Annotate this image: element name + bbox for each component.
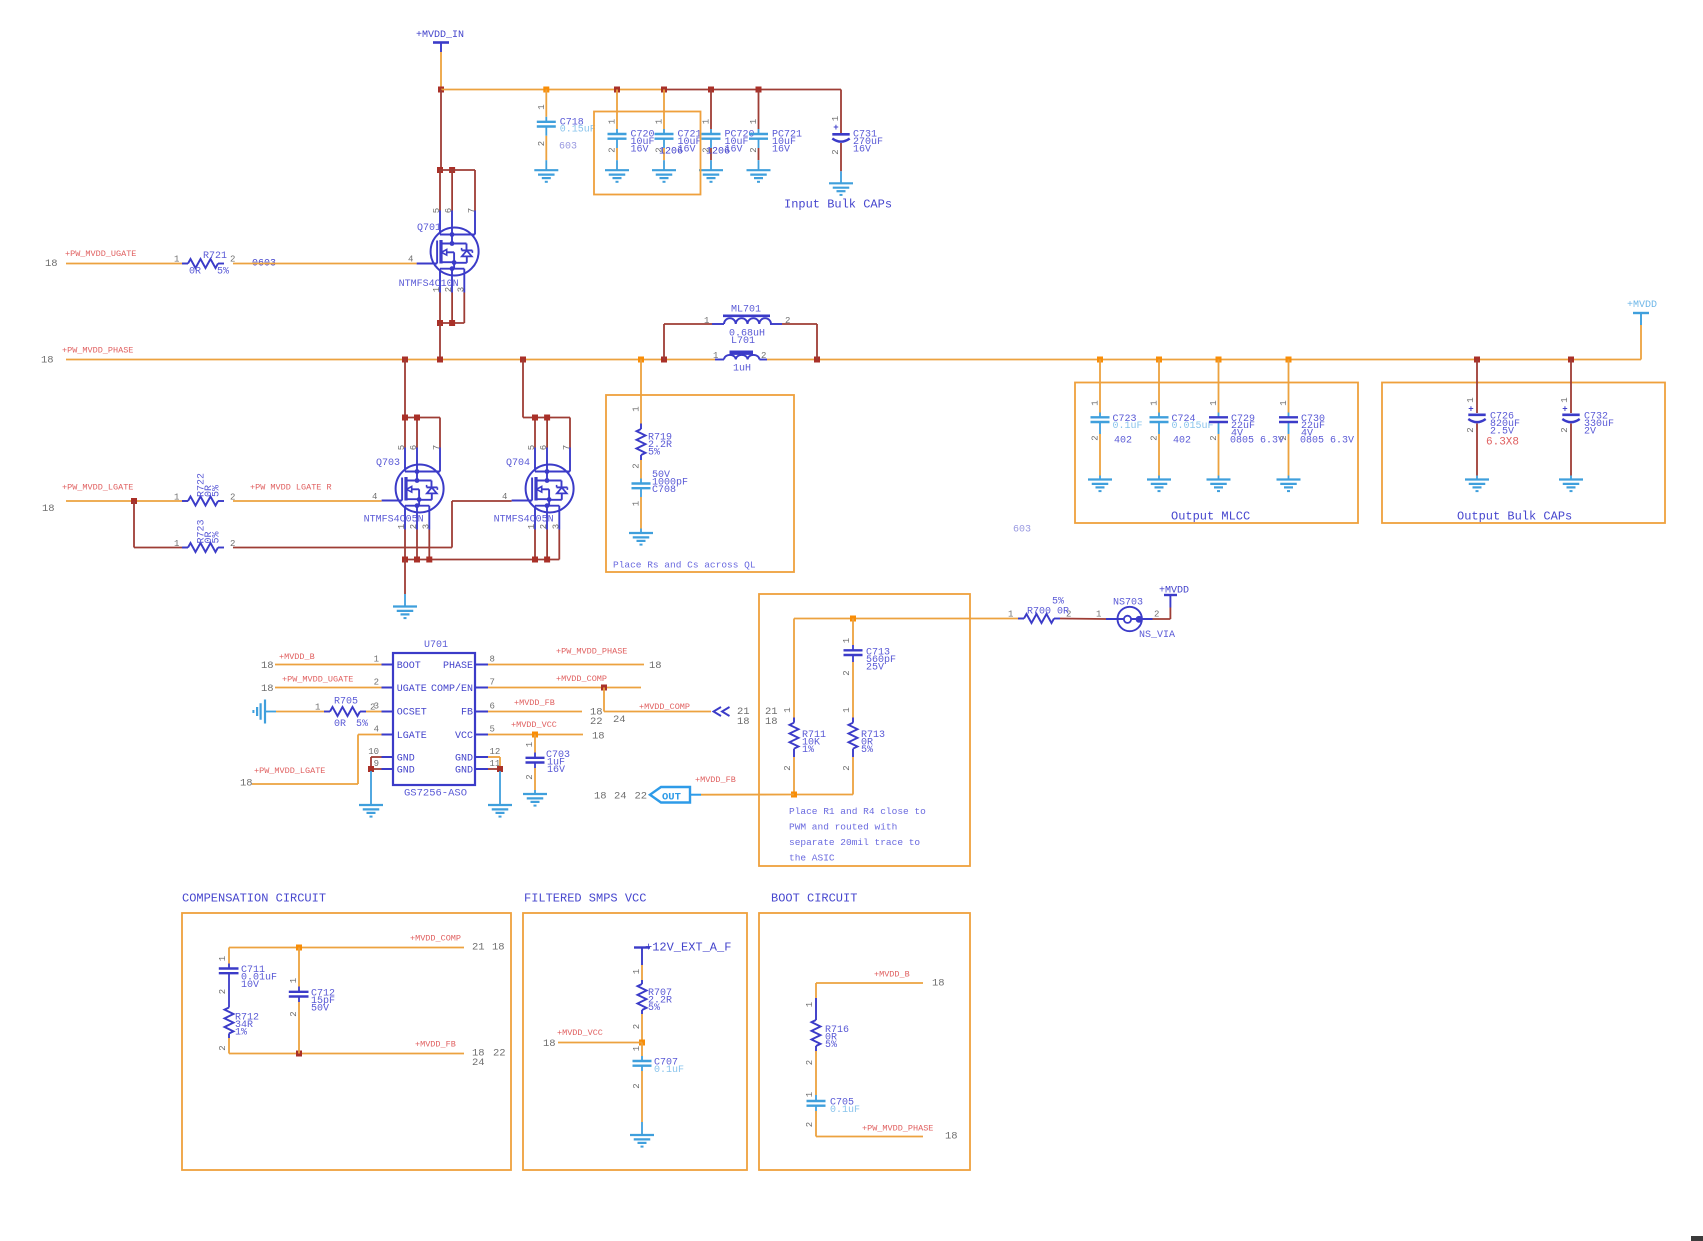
junction phase Q704	[520, 357, 526, 363]
svg-text:1: 1	[713, 351, 718, 361]
svg-text:2: 2	[1466, 427, 1476, 432]
svg-text:0.015uF: 0.015uF	[1172, 421, 1214, 432]
svg-text:1: 1	[805, 1002, 815, 1007]
svg-text:9: 9	[374, 759, 379, 769]
svg-text:2: 2	[1209, 435, 1219, 440]
svg-text:1: 1	[174, 493, 179, 503]
svg-text:0805 6.3V: 0805 6.3V	[1300, 436, 1354, 447]
ic U701 GS7256-ASO	[368, 640, 500, 800]
wire C708 to ground	[640, 497, 642, 529]
svg-text:1: 1	[1466, 397, 1476, 402]
wire comp bottom	[229, 1038, 464, 1054]
junction phase snubber	[638, 357, 644, 363]
junction Q704 pin5	[532, 415, 538, 421]
wire source ground stub	[404, 594, 406, 607]
svg-text:2: 2	[632, 1024, 642, 1029]
svg-text:0.1uF: 0.1uF	[654, 1065, 684, 1076]
svg-text:22: 22	[493, 1048, 506, 1060]
svg-text:18: 18	[649, 660, 662, 672]
svg-text:+MVDD_FB: +MVDD_FB	[695, 775, 736, 785]
svg-text:1: 1	[525, 742, 535, 747]
svg-text:2: 2	[218, 1045, 228, 1050]
capacitor C732 polarized	[1560, 397, 1614, 437]
svg-text:2: 2	[805, 1060, 815, 1065]
svg-text:2: 2	[805, 1122, 815, 1127]
svg-text:1: 1	[289, 978, 299, 983]
svg-text:+MVDD_COMP: +MVDD_COMP	[639, 702, 690, 712]
wire R707 to junction	[641, 1014, 643, 1043]
wire input bus orange	[441, 89, 665, 91]
wire C721 leads	[663, 90, 665, 171]
svg-text:+PW_MVDD_LGATE: +PW_MVDD_LGATE	[62, 483, 133, 493]
svg-text:18: 18	[45, 258, 58, 270]
svg-text:2: 2	[218, 989, 228, 994]
wire phase rail left	[66, 359, 715, 361]
svg-text:NTMFS4C05N: NTMFS4C05N	[364, 515, 424, 526]
resistor R700	[1008, 597, 1071, 624]
svg-text:1: 1	[842, 707, 852, 712]
wire Q704 drain	[523, 360, 570, 448]
capacitor C703	[525, 742, 570, 780]
junction PC721	[756, 87, 762, 93]
svg-text:6: 6	[409, 445, 419, 450]
svg-text:6.3X8: 6.3X8	[1486, 437, 1519, 449]
svg-text:10: 10	[368, 747, 379, 757]
svg-text:2: 2	[537, 141, 547, 146]
capacitor C724	[1150, 400, 1214, 440]
svg-text:0.1uF: 0.1uF	[830, 1105, 860, 1116]
svg-text:1: 1	[805, 1092, 815, 1097]
junction C726	[1474, 357, 1480, 363]
wire PC721 leads	[758, 90, 760, 171]
junction source Q703 pin1	[402, 557, 408, 563]
svg-text:5%: 5%	[217, 267, 229, 278]
svg-text:+PW_MVDD_PHASE: +PW_MVDD_PHASE	[556, 647, 627, 657]
svg-text:5: 5	[397, 445, 407, 450]
svg-text:GND: GND	[455, 766, 473, 777]
wire COMP out	[488, 687, 641, 689]
wire 12V to R707	[641, 965, 643, 980]
resistor R705	[315, 697, 375, 731]
ground C732	[1559, 480, 1583, 492]
svg-text:18: 18	[765, 716, 778, 728]
svg-text:2: 2	[374, 678, 379, 688]
wire lgate left	[66, 500, 188, 502]
svg-text:0.1uF: 0.1uF	[1113, 421, 1143, 432]
svg-text:2: 2	[842, 765, 852, 770]
wire MVDD_VCC out	[558, 1042, 642, 1044]
svg-text:Input Bulk CAPs: Input Bulk CAPs	[784, 198, 892, 212]
svg-text:16V: 16V	[772, 144, 790, 155]
junction MVDD_VCC	[639, 1040, 645, 1046]
ground U701 right	[488, 805, 512, 817]
box input MLCC group	[594, 112, 701, 195]
resistor R723	[174, 519, 235, 552]
ground U701 left	[359, 805, 383, 817]
svg-text:25V: 25V	[866, 662, 884, 673]
junction Q703 pin6	[414, 415, 420, 421]
svg-text:1: 1	[702, 119, 712, 124]
svg-text:PWM and routed with: PWM and routed with	[789, 822, 897, 833]
svg-text:1: 1	[632, 501, 642, 506]
svg-text:4: 4	[408, 255, 413, 265]
svg-text:4: 4	[372, 492, 377, 502]
svg-text:2: 2	[1091, 435, 1101, 440]
wire Q703 drain	[405, 360, 440, 448]
capacitor C731 polarized	[831, 116, 883, 156]
junction C723	[1097, 357, 1103, 363]
svg-text:GS7256-ASO: GS7256-ASO	[404, 788, 467, 800]
wire comp top	[229, 948, 464, 964]
svg-text:2: 2	[761, 351, 766, 361]
junction phase ML701 left	[661, 357, 667, 363]
note place R1 and R4	[789, 806, 926, 864]
svg-text:Place Rs and Cs across QL: Place Rs and Cs across QL	[613, 560, 756, 571]
ground PC721	[747, 170, 771, 182]
svg-text:Place R1 and R4 close to: Place R1 and R4 close to	[789, 806, 926, 817]
label pages OUT	[594, 791, 647, 803]
svg-text:the ASIC: the ASIC	[789, 853, 835, 864]
svg-text:+MVDD_B: +MVDD_B	[279, 652, 315, 662]
box output bulk	[1382, 383, 1665, 524]
wire Q701 bottom pins	[440, 293, 464, 324]
svg-text:Output Bulk CAPs: Output Bulk CAPs	[1457, 510, 1572, 524]
label pages comp top	[472, 942, 505, 954]
svg-text:+MVDD_FB: +MVDD_FB	[514, 698, 555, 708]
svg-text:+MVDD_IN: +MVDD_IN	[416, 30, 464, 41]
svg-text:5%: 5%	[825, 1040, 837, 1051]
svg-text:ML701: ML701	[731, 305, 761, 316]
ground C730	[1277, 480, 1301, 492]
svg-text:OUT: OUT	[662, 792, 681, 804]
svg-text:603: 603	[559, 142, 577, 153]
wire UGATE	[275, 687, 382, 689]
svg-text:5%: 5%	[648, 1003, 660, 1014]
transistor Q704	[494, 445, 574, 530]
wire OCSET ground stub	[265, 711, 276, 713]
resistor R713	[842, 707, 885, 770]
svg-text:COMP/EN: COMP/EN	[431, 683, 473, 695]
junction R711 bottom	[791, 792, 797, 798]
svg-text:BOOT: BOOT	[397, 661, 421, 672]
resistor R711	[783, 707, 826, 770]
capacitor C718	[537, 104, 596, 146]
inductor ML701	[704, 305, 790, 348]
svg-text:7: 7	[467, 208, 477, 213]
svg-text:6: 6	[490, 702, 495, 712]
svg-text:1: 1	[1096, 610, 1101, 620]
svg-text:2V: 2V	[1584, 426, 1596, 437]
svg-text:2: 2	[1150, 435, 1160, 440]
svg-text:16V: 16V	[547, 765, 565, 776]
capacitor C713	[842, 638, 896, 676]
svg-text:VCC: VCC	[455, 731, 473, 742]
resistor R716	[805, 998, 849, 1065]
svg-text:2: 2	[749, 147, 759, 152]
wire C708 ground stub	[640, 529, 642, 534]
ground OCSET	[253, 700, 265, 724]
svg-text:2: 2	[1279, 435, 1289, 440]
wire C730 leads	[1288, 360, 1290, 480]
svg-text:22: 22	[590, 716, 603, 728]
svg-text:22: 22	[635, 791, 648, 803]
svg-text:2: 2	[1560, 427, 1570, 432]
svg-text:+12V_EXT_A_F: +12V_EXT_A_F	[645, 941, 731, 955]
svg-text:NTMFS4C05N: NTMFS4C05N	[494, 515, 554, 526]
svg-text:GND: GND	[397, 754, 415, 765]
svg-text:+PW_MVDD_PHASE: +PW_MVDD_PHASE	[62, 346, 133, 356]
wire C723 leads	[1099, 360, 1101, 480]
svg-text:16V: 16V	[631, 144, 649, 155]
wire C724 leads	[1158, 360, 1160, 480]
svg-text:18: 18	[932, 978, 945, 990]
svg-text:+PW_MVDD_PHASE: +PW_MVDD_PHASE	[862, 1124, 933, 1134]
svg-text:+: +	[833, 123, 838, 133]
svg-text:1: 1	[1150, 400, 1160, 405]
wire C711 to R712	[228, 978, 230, 1008]
svg-text:+: +	[1468, 405, 1473, 415]
wire C703 top	[534, 735, 536, 753]
svg-text:10V: 10V	[241, 980, 259, 991]
wire C720 leads	[616, 90, 618, 171]
capacitor C723	[1091, 400, 1143, 440]
wire junction to C707	[641, 1043, 643, 1057]
svg-text:1: 1	[1091, 400, 1101, 405]
svg-text:1: 1	[315, 703, 320, 713]
junction C724	[1156, 357, 1162, 363]
ground C723	[1088, 480, 1112, 492]
svg-text:GND: GND	[397, 766, 415, 777]
svg-text:4: 4	[374, 725, 379, 735]
wire FB out	[488, 711, 582, 713]
svg-text:1: 1	[1209, 400, 1219, 405]
inductor L701 ferrite bead	[713, 351, 767, 375]
svg-text:1206: 1206	[659, 147, 683, 158]
svg-text:1: 1	[537, 104, 547, 109]
capacitor PC721	[749, 119, 802, 156]
svg-text:COMPENSATION CIRCUIT: COMPENSATION CIRCUIT	[182, 892, 326, 906]
junction phase Q701	[437, 357, 443, 363]
wire phase rail right	[767, 325, 1641, 360]
svg-text:R721: R721	[203, 251, 227, 262]
svg-text:1: 1	[842, 638, 852, 643]
wire GND11 stub	[499, 771, 501, 805]
svg-text:8: 8	[490, 655, 495, 665]
wire VCC out	[488, 734, 583, 736]
junction lgate split	[131, 498, 137, 504]
junction Q701 pin1	[437, 320, 443, 326]
svg-text:7: 7	[562, 445, 572, 450]
wire OCSET left	[276, 711, 330, 713]
junction C720	[614, 87, 620, 93]
wire ML701 branch	[664, 324, 817, 360]
resistor R719	[632, 406, 673, 468]
wire C712 top	[298, 948, 300, 987]
junction Q703 pin5	[402, 415, 408, 421]
ground C707	[630, 1135, 654, 1147]
power +MVDD at via	[1159, 586, 1189, 608]
svg-text:1: 1	[174, 539, 179, 549]
svg-text:1: 1	[1008, 610, 1013, 620]
svg-text:1: 1	[608, 119, 618, 124]
power +MVDD right	[1627, 300, 1657, 325]
svg-text:24: 24	[614, 791, 627, 803]
junction comp bottom	[296, 1051, 302, 1057]
junction GND11	[497, 766, 503, 772]
label pages comp bottom	[472, 1048, 506, 1070]
box place R1 R4	[759, 594, 970, 866]
svg-text:1%: 1%	[235, 1027, 247, 1038]
transistor Q701	[399, 208, 479, 293]
svg-text:21: 21	[472, 942, 485, 954]
svg-text:5%: 5%	[648, 447, 660, 458]
wire Q701 source to phase	[439, 323, 441, 360]
capacitor C712	[289, 978, 335, 1017]
svg-text:1: 1	[1279, 400, 1289, 405]
wire R716 to C705	[815, 1051, 817, 1095]
svg-text:24: 24	[472, 1057, 485, 1069]
svg-text:OCSET: OCSET	[397, 708, 427, 719]
svg-text:2: 2	[632, 463, 642, 468]
svg-text:5%: 5%	[861, 745, 873, 756]
junction source Q704 pin2	[544, 557, 550, 563]
svg-text:2: 2	[831, 149, 841, 154]
junction phase Q703	[402, 357, 408, 363]
wire boot top	[816, 983, 923, 998]
wire input bus maroon	[664, 90, 841, 134]
svg-text:+: +	[1562, 405, 1567, 415]
junction C721	[661, 87, 667, 93]
ground power stage	[393, 607, 417, 619]
svg-text:1: 1	[632, 406, 642, 411]
wire Q701 drain	[440, 90, 442, 171]
junction C729	[1216, 357, 1222, 363]
wire Q701 top pins	[440, 170, 475, 211]
wire NS703 to +MVDD	[1153, 608, 1171, 620]
svg-text:1: 1	[749, 119, 759, 124]
svg-text:+MVDD_VCC: +MVDD_VCC	[557, 1028, 603, 1038]
svg-text:5: 5	[527, 445, 537, 450]
wire COMP down	[604, 688, 711, 712]
svg-text:separate 20mil trace to: separate 20mil trace to	[789, 837, 920, 848]
ground C720	[605, 170, 629, 182]
junction COMP	[601, 685, 607, 691]
capacitor C726 polarized	[1466, 397, 1520, 448]
svg-text:+MVDD_FB: +MVDD_FB	[415, 1040, 456, 1050]
junction C730	[1286, 357, 1292, 363]
wire comp top to R700	[794, 618, 1024, 620]
wire boot bottom	[816, 1111, 923, 1137]
wire R700 to NS703	[1060, 618, 1106, 621]
svg-text:18: 18	[592, 731, 605, 743]
wire ugate left	[66, 263, 188, 265]
svg-text:603: 603	[1013, 525, 1031, 536]
capacitor C721	[655, 119, 702, 158]
wire lgate to Q703	[233, 500, 382, 502]
svg-text:1: 1	[218, 956, 228, 961]
svg-text:18: 18	[261, 683, 274, 695]
wire GND9 stub	[370, 771, 372, 805]
wire C703 ground stub	[534, 790, 536, 794]
power +12V_EXT_A_F	[634, 941, 731, 966]
svg-text:FILTERED SMPS VCC: FILTERED SMPS VCC	[524, 892, 646, 906]
svg-text:24: 24	[613, 714, 626, 726]
wire C707 ground stub	[641, 1122, 643, 1135]
svg-text:2: 2	[608, 147, 618, 152]
ground C703	[523, 794, 547, 806]
svg-text:Q704: Q704	[506, 458, 530, 469]
svg-text:+PW MVDD LGATE R: +PW MVDD LGATE R	[250, 483, 332, 493]
svg-text:PHASE: PHASE	[443, 661, 473, 672]
wire R723 to Q704	[233, 501, 512, 548]
svg-text:16V: 16V	[853, 144, 871, 155]
wire source bus	[405, 530, 559, 560]
box boot circuit	[759, 913, 970, 1170]
svg-text:Output MLCC: Output MLCC	[1171, 510, 1250, 524]
svg-text:1: 1	[831, 116, 841, 121]
svg-text:0R: 0R	[334, 719, 346, 730]
svg-text:+MVDD: +MVDD	[1159, 586, 1189, 597]
box output MLCC	[1075, 383, 1358, 524]
junction VCC C703	[532, 732, 538, 738]
svg-text:50V: 50V	[311, 1003, 329, 1014]
resistor R707	[632, 969, 672, 1029]
svg-text:Q701: Q701	[417, 223, 441, 234]
svg-text:0805 6.3V: 0805 6.3V	[1230, 436, 1284, 447]
svg-text:+MVDD_B: +MVDD_B	[874, 970, 910, 980]
label pages 21 18 inner	[765, 706, 778, 728]
ground C729	[1207, 480, 1231, 492]
svg-text:GND: GND	[455, 754, 473, 765]
svg-text:0R: 0R	[189, 267, 201, 278]
svg-text:0.15uF: 0.15uF	[560, 125, 596, 136]
svg-text:6: 6	[539, 445, 549, 450]
ground C721	[652, 170, 676, 182]
svg-text:2: 2	[1154, 610, 1159, 620]
junction C732	[1568, 357, 1574, 363]
port OUT	[650, 787, 701, 804]
wire C703 bottom	[534, 768, 536, 790]
svg-text:C708: C708	[652, 485, 676, 496]
wire OCSET right	[366, 711, 382, 713]
wire BOOT	[275, 664, 382, 666]
svg-text:L701: L701	[731, 336, 755, 347]
svg-text:18: 18	[492, 942, 505, 954]
junction source Q703 pin2	[414, 557, 420, 563]
junction Q701 pin5	[437, 167, 443, 173]
wire R719 to C708	[640, 460, 642, 479]
ground C718	[534, 170, 558, 182]
svg-text:5%: 5%	[1052, 597, 1064, 608]
svg-text:UGATE: UGATE	[397, 684, 427, 695]
via NS703 NS_VIA	[1096, 598, 1175, 642]
label pages FB	[590, 707, 626, 729]
wire R723 branch	[134, 501, 188, 548]
capacitor C729	[1209, 400, 1255, 440]
svg-text:18: 18	[737, 716, 750, 728]
junction GND9	[368, 766, 374, 772]
svg-text:18: 18	[42, 503, 55, 515]
wire C712 bottom	[298, 1002, 300, 1054]
svg-text:LGATE: LGATE	[397, 731, 427, 742]
svg-text:Q703: Q703	[376, 458, 400, 469]
junction Q704 pin6	[544, 415, 550, 421]
svg-text:2: 2	[785, 316, 790, 326]
wire C732 leads	[1570, 360, 1572, 480]
wire GND12	[488, 757, 500, 769]
svg-text:FB: FB	[461, 708, 473, 719]
wire ugate right	[233, 263, 417, 265]
